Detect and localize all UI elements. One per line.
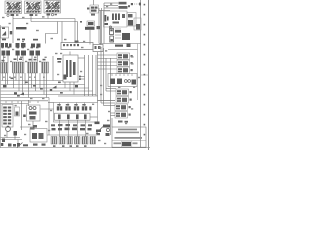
engine harness cluster box bbox=[108, 74, 137, 87]
switch row2 cluster S4 bbox=[1, 60, 8, 73]
fuse panel box bottom left bbox=[2, 105, 13, 128]
firewall line left bbox=[1, 101, 49, 103]
lamp symbol 1 bbox=[57, 103, 62, 111]
horizontal wire y103.5 bbox=[1, 103, 29, 105]
ignition coil cluster bottom left bbox=[23, 105, 40, 121]
horn component bbox=[97, 26, 101, 29]
ground strap mark bbox=[95, 122, 100, 125]
bulb strip box bbox=[55, 113, 91, 120]
strip box drop wires bbox=[59, 120, 85, 136]
accessory relay box bbox=[127, 13, 136, 27]
lamp symbol 2 bbox=[65, 103, 70, 111]
right ladder stub wires bbox=[98, 48, 118, 106]
wire step x57 bbox=[46, 22, 58, 44]
gauge cluster G2 connector bbox=[30, 14, 38, 16]
gauge sender box R7 bbox=[115, 112, 131, 119]
column harness verticals bbox=[78, 55, 96, 95]
clip mark bbox=[139, 3, 141, 6]
switch row1 cluster S1 bbox=[2, 47, 11, 56]
flasher unit inside connector box bbox=[2, 31, 6, 36]
wire drops rows to bus bbox=[3, 56, 54, 136]
border frame right inner line bbox=[140, 0, 142, 148]
title block bbox=[112, 127, 146, 147]
ignition coil column mark A bbox=[110, 26, 114, 35]
connector entry mark bbox=[75, 41, 79, 44]
gauge sender box R5 bbox=[116, 97, 132, 104]
lamp enclosure box bottom middle bbox=[54, 103, 98, 123]
wire bus y21.5 bbox=[31, 21, 78, 23]
bus wire B4 nested corner bbox=[1, 91, 93, 96]
switch row2 cluster S7 bbox=[42, 59, 49, 73]
ground cluster marks bbox=[1, 139, 28, 147]
label text specks bbox=[2, 3, 140, 144]
key buzzer dot bbox=[131, 3, 133, 5]
bulkhead connector strip C101 bbox=[93, 45, 103, 52]
bottom bus wire y135 bbox=[47, 134, 100, 136]
clock component wire bbox=[93, 0, 95, 5]
bus tick labels bbox=[11, 78, 63, 97]
label under coil bbox=[30, 128, 35, 130]
ignition switch block bbox=[104, 11, 128, 27]
wiper motor box M1 bbox=[63, 55, 78, 82]
switch row2 cluster S5 bbox=[13, 58, 25, 73]
label marks row y39 bbox=[2, 39, 38, 41]
stub tick marks nested area bbox=[79, 76, 81, 80]
bus junction marks bbox=[3, 85, 78, 95]
gauge sender box R3 bbox=[117, 67, 133, 74]
marks under relay banks bbox=[53, 145, 87, 147]
connector bank row1 group1 bbox=[1, 43, 12, 48]
gauge cluster box G1 bbox=[5, 1, 22, 14]
M1 pin drop wires bbox=[65, 82, 74, 95]
wire drop x77.5 to bulkhead bbox=[77, 22, 79, 43]
bus wire B6 bbox=[1, 97, 50, 99]
terminal number row bbox=[3, 77, 45, 78]
right stub wires lower bbox=[98, 89, 117, 116]
bottom relay bank R1 bbox=[51, 137, 57, 145]
switch row1 cluster S3 bbox=[30, 47, 41, 56]
harness label 2 bbox=[96, 130, 101, 135]
dashed wire to clip bbox=[134, 3, 139, 5]
bus wire B2 nested corner bbox=[1, 85, 85, 97]
bottom relay bank R3 bbox=[67, 137, 73, 145]
wire drop x75 to bulkhead bbox=[74, 19, 76, 43]
border frame left line bbox=[0, 25, 2, 148]
wire horizontal y43.5 bbox=[99, 43, 141, 45]
gauge cluster G1 connector bbox=[7, 14, 19, 16]
resistor text mark bbox=[115, 30, 121, 33]
ignition coil column mark B bbox=[110, 36, 114, 42]
starter label text bbox=[115, 44, 131, 48]
horn relay block bbox=[85, 21, 95, 30]
wire out of bulb strip bbox=[90, 116, 98, 118]
fuse label text blob top right A bbox=[119, 2, 128, 9]
wire bus y18.5 bbox=[13, 18, 75, 20]
border frame right outer line bbox=[147, 0, 149, 150]
gauge cluster box G3 bbox=[44, 1, 61, 14]
bus wire B1 bbox=[1, 80, 64, 82]
bottom relay label row A bbox=[51, 124, 92, 126]
gauge sender box R4 bbox=[116, 89, 132, 96]
wire from G3 down bbox=[47, 16, 49, 19]
diagonal harness stroke right bbox=[96, 127, 103, 134]
gauge cluster box G2 bbox=[25, 1, 42, 14]
wire y100.5 to right boxes bbox=[98, 100, 116, 102]
gauge cluster G3 connector bbox=[47, 14, 57, 16]
bus wire B3 nested corner bbox=[1, 88, 89, 96]
connector box at left edge bbox=[1, 27, 9, 38]
distributor cluster block bbox=[122, 33, 130, 40]
vertical wire x28.5 bbox=[28, 100, 30, 106]
bus envelope wire bbox=[58, 96, 98, 103]
ignition harness wires top right bbox=[99, 3, 118, 44]
side connector box bbox=[15, 107, 20, 116]
wire from G1 down bbox=[12, 16, 14, 43]
bottom relay bank R4 bbox=[75, 137, 81, 145]
distributor bottom left bbox=[6, 126, 11, 132]
condenser blob bbox=[14, 131, 18, 136]
diagonal harness stroke bbox=[17, 143, 23, 148]
wire from coil cluster right bbox=[41, 108, 54, 110]
bulkhead connector strip C100 bbox=[61, 43, 93, 50]
solenoid mark left of ignition switch bbox=[105, 15, 109, 25]
gauge sender box R2 bbox=[117, 60, 133, 67]
wire horizontal y49.5 bbox=[108, 49, 138, 51]
gauge sender box R1 bbox=[117, 53, 133, 60]
connector bank row1 group3 bbox=[31, 44, 41, 48]
connector bank row1 group2 bbox=[16, 43, 26, 48]
bottom relay bank R6 bbox=[90, 137, 96, 145]
lamp symbol 3 bbox=[74, 103, 79, 111]
lamp symbol 5 bbox=[89, 107, 91, 111]
starter assembly box bottom left bbox=[30, 125, 47, 142]
marks right of ignition switch bbox=[122, 14, 125, 18]
bottom left wires bbox=[1, 132, 23, 144]
printed circuit text block upper-left bbox=[2, 27, 27, 29]
clock component box bbox=[87, 5, 99, 16]
switch row1 cluster S2 bbox=[16, 47, 27, 56]
harness label below corner bbox=[103, 125, 110, 128]
bottom relay label row B bbox=[52, 128, 92, 131]
bottom relay bank R2 bbox=[59, 137, 65, 145]
label marks above title block bbox=[118, 121, 128, 123]
label marks left of M1 bbox=[57, 58, 62, 63]
bottom relay bank R5 bbox=[82, 137, 88, 145]
wire drop x100.5 bbox=[100, 11, 102, 45]
vertical wire x21.5 bbox=[21, 101, 23, 130]
resistor ladder ticks bbox=[115, 29, 121, 38]
vertical wire x110.5 bbox=[110, 58, 112, 135]
wire from G2 down bbox=[30, 16, 32, 22]
wire drop x90 from horn relay bbox=[89, 30, 91, 45]
border frame bottom line bbox=[0, 147, 150, 149]
wire y102.5 extension left bbox=[48, 102, 54, 104]
wire from coil cluster down bbox=[20, 121, 33, 127]
heater switch box bbox=[134, 18, 141, 30]
indicator lamp L1 bbox=[10, 31, 12, 34]
wire strip to M1 bbox=[69, 52, 71, 56]
ruler zone number marks bbox=[144, 4, 146, 136]
tick near x80 bbox=[80, 21, 82, 23]
ruler zone divider bbox=[141, 74, 149, 76]
marks under starter box bbox=[33, 144, 46, 146]
bus wire B5 nested corner bbox=[1, 95, 97, 97]
lamp symbol 4 bbox=[82, 103, 87, 111]
mark near buzzer bbox=[128, 5, 130, 7]
sensor left of title block bbox=[106, 128, 110, 136]
switch row2 cluster S6 bbox=[28, 59, 38, 73]
gauge sender box R6 bbox=[115, 104, 131, 111]
vertical wire x137.5 bbox=[137, 44, 139, 101]
wire drop x62 bbox=[61, 22, 63, 43]
vertical wire x112 left of title block bbox=[111, 118, 113, 127]
